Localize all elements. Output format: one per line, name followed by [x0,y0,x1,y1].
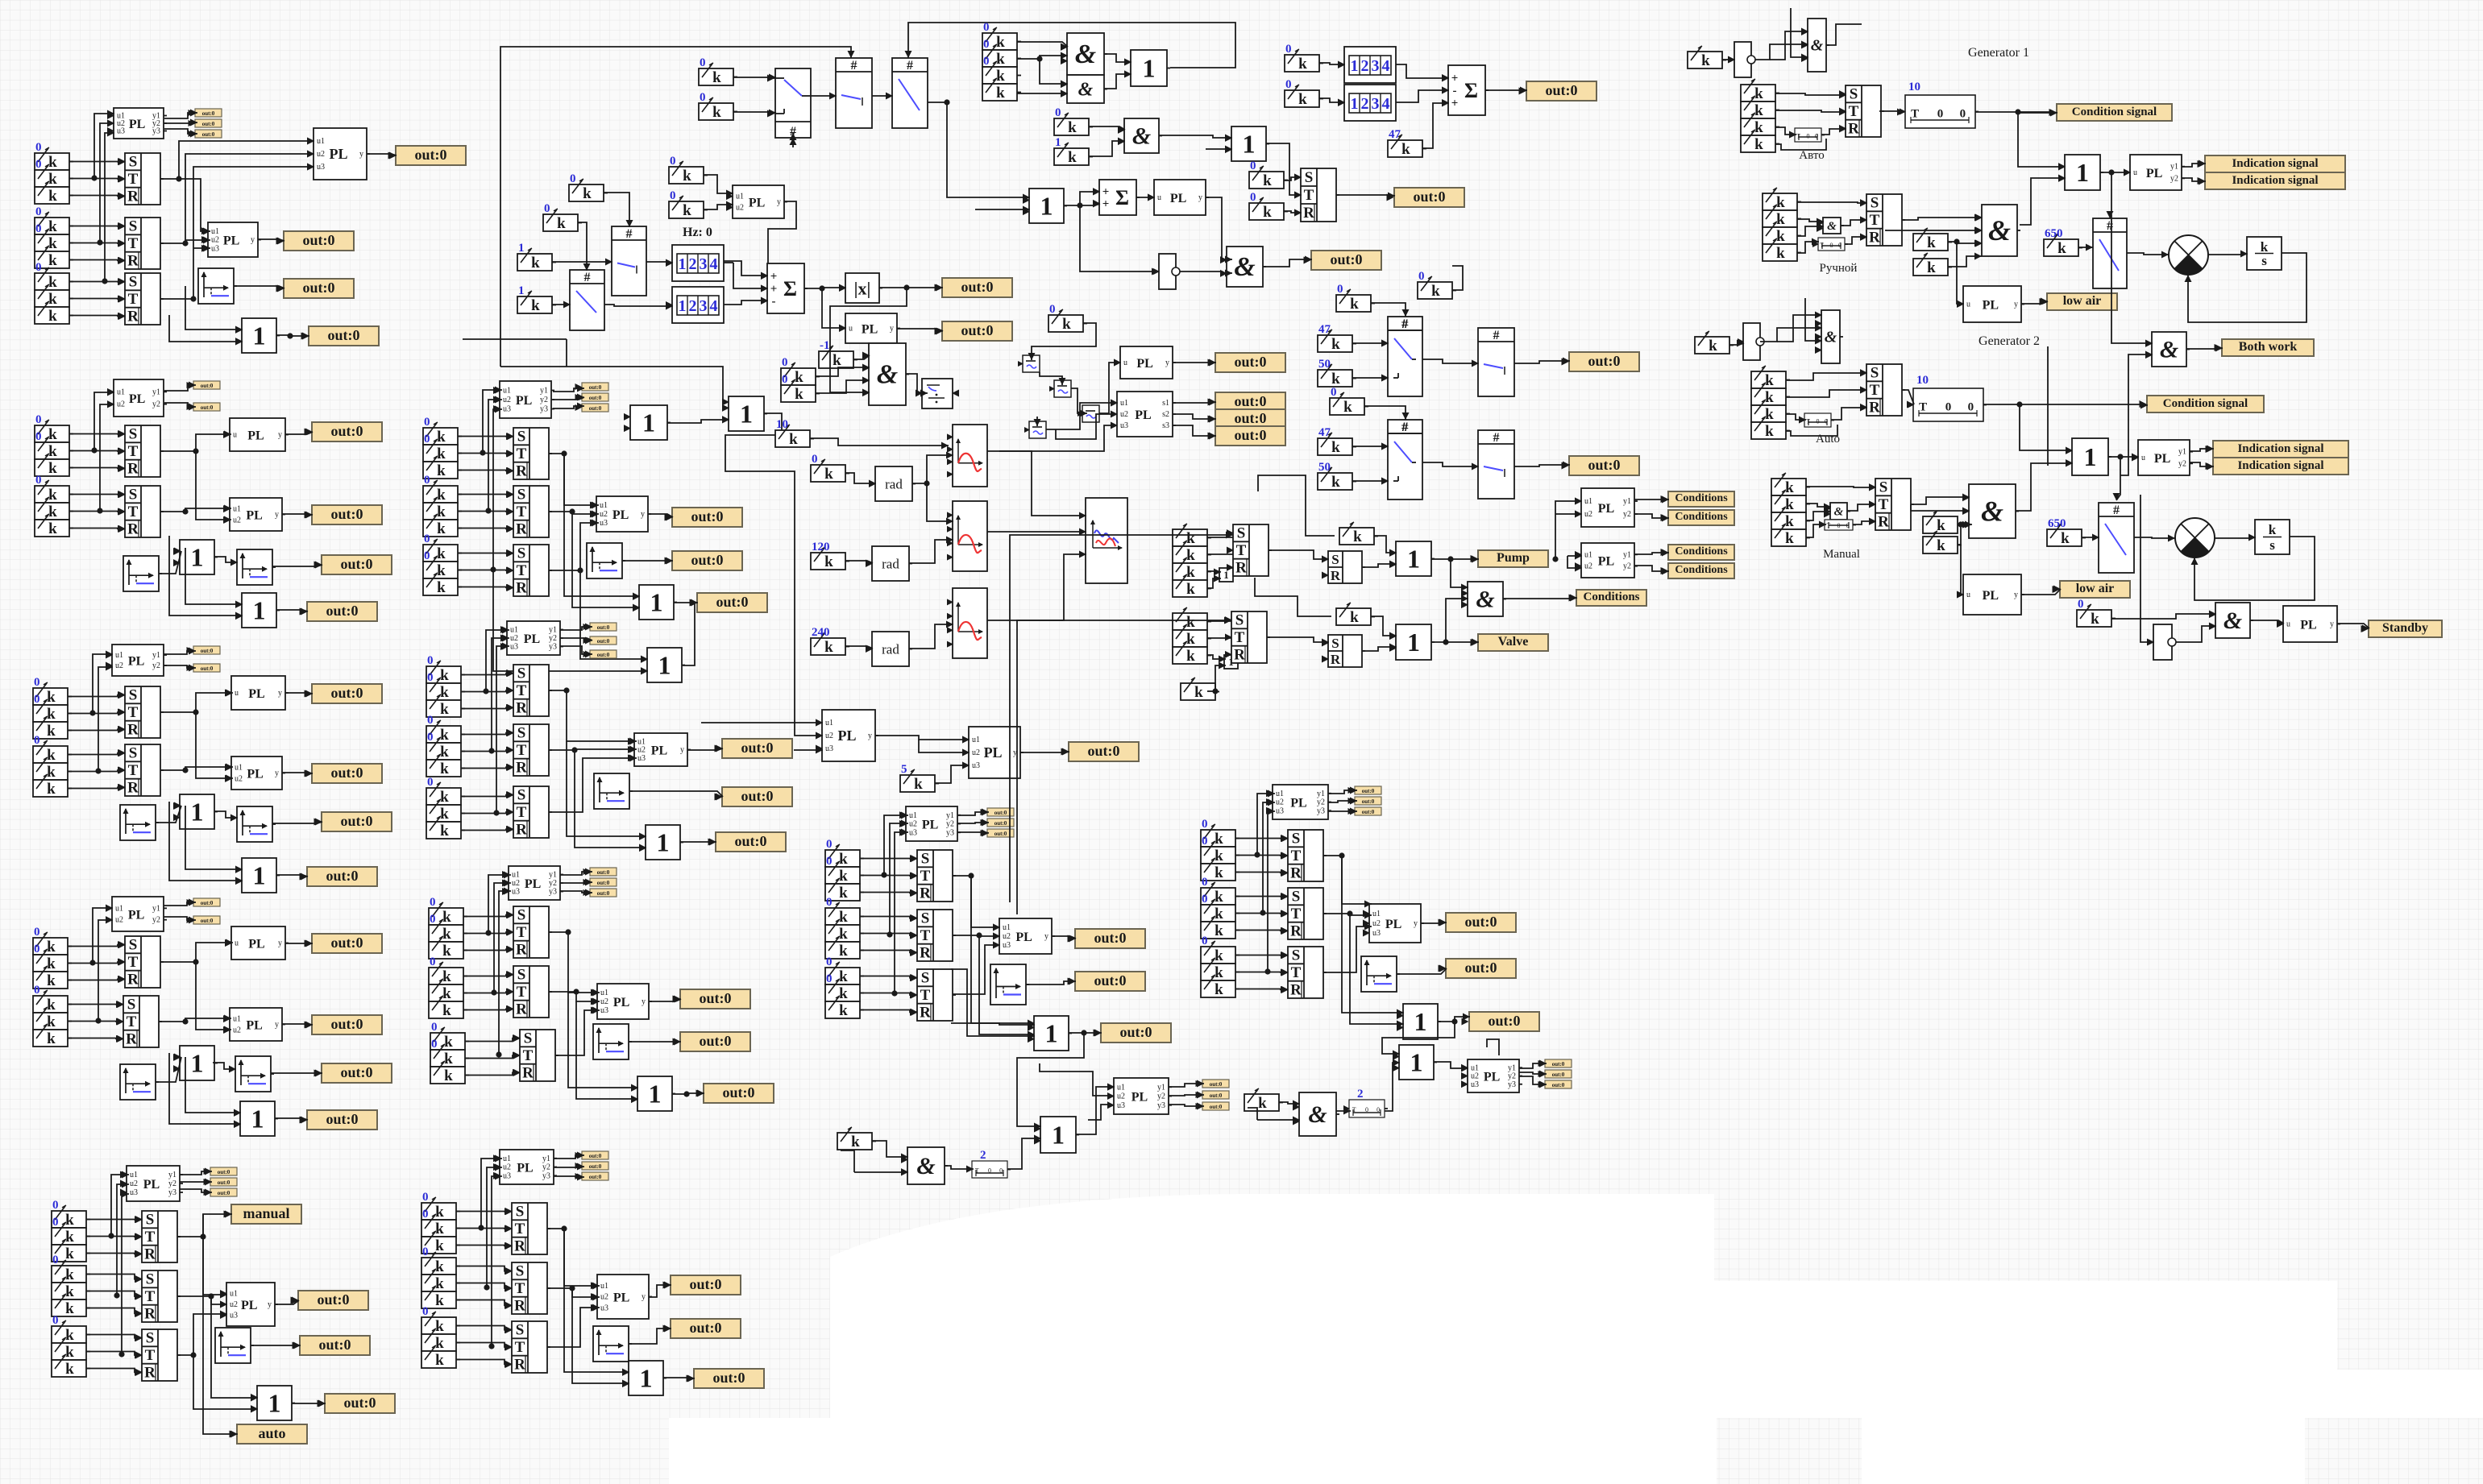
svg-text:k: k [65,1300,74,1317]
wire [1431,641,1479,643]
svg-text:T: T [1291,964,1302,981]
wire [1821,129,1846,135]
wire [1806,487,1876,487]
svg-text:S: S [1871,365,1879,382]
svg-text:S: S [146,1330,155,1347]
wire [275,1300,299,1304]
svg-text:k: k [1258,1095,1267,1112]
AND gate & [1468,582,1503,616]
wire [1284,177,1302,180]
gain k [429,1001,463,1018]
wire [68,712,125,714]
svg-text:out:0: out:0 [303,280,335,296]
svg-text:y3: y3 [549,643,557,652]
svg-text:u2: u2 [909,820,917,829]
small output out:0 [210,1167,237,1175]
svg-text:0: 0 [34,693,40,706]
svg-text:PL: PL [128,909,144,922]
PL logic block [500,381,551,418]
svg-text:Both work: Both work [2239,340,2298,354]
svg-text:T: T [515,1280,525,1297]
svg-text:out:0: out:0 [341,556,373,572]
svg-text:PL: PL [129,118,145,131]
AND gate & [1969,484,2016,538]
svg-text:out:0: out:0 [589,405,602,412]
gain k [421,1317,456,1334]
output label out:0 [680,989,750,1009]
wire [1451,559,1468,587]
svg-text:0: 0 [2078,598,2084,611]
PL logic block [112,645,164,676]
svg-text:k: k [1785,530,1794,547]
wire [285,943,313,944]
gain k [429,925,463,942]
svg-text:0: 0 [544,202,550,215]
svg-text:u: u [235,689,239,698]
svg-text:k: k [1186,547,1195,564]
sine generator [953,501,987,571]
gain k [33,780,68,797]
svg-text:k: k [440,727,449,744]
svg-text:k: k [48,504,57,520]
svg-text:S: S [129,487,138,504]
svg-text:50: 50 [1318,358,1331,371]
wire [1797,202,1867,203]
svg-text:R: R [920,1004,931,1021]
wire [945,1166,974,1169]
gain k [35,290,69,307]
svg-text:out:0: out:0 [716,594,749,610]
wire [69,161,125,163]
pulse timer T 0 0 [1913,388,1983,421]
svg-text:0: 0 [34,676,40,689]
svg-text:u2: u2 [230,1300,238,1309]
wire [211,1296,258,1398]
OR gate 1 [629,1361,663,1395]
gain k [1173,630,1207,647]
small output out:0 [590,878,617,886]
svg-text:Generator 2: Generator 2 [1979,334,2040,348]
svg-text:k: k [47,997,56,1014]
svg-text:Σ: Σ [783,277,797,301]
wire [160,141,314,179]
RS trigger S/T/R [512,1262,547,1314]
svg-text:0: 0 [1202,935,1208,947]
wire [629,1041,681,1043]
wire [2182,164,2206,167]
gain k [811,465,845,482]
wire [1634,553,1669,554]
wire [69,450,125,453]
svg-text:k: k [683,168,691,184]
svg-text:0: 0 [1250,160,1256,172]
svg-text:k: k [1765,389,1774,406]
svg-text:0: 0 [1937,108,1944,121]
wire [1010,535,1233,902]
svg-text:k: k [47,955,56,972]
output label out:0 [680,1032,750,1051]
svg-text:k: k [435,1335,444,1352]
output label out:0 [1215,392,1285,412]
svg-text:out:0: out:0 [202,110,215,117]
OR gate 1 [1399,1045,1434,1080]
RS trigger S/T/R [125,273,160,325]
svg-text:out:0: out:0 [589,1153,602,1159]
gain k [35,187,69,204]
svg-text:k: k [839,985,848,1002]
output label out:0 [1215,353,1285,372]
wire [86,1335,142,1338]
wire [1069,1032,1102,1034]
PL logic block [231,757,282,790]
OR gate 1 [1034,1016,1069,1051]
AND gate & [1299,1092,1336,1136]
svg-text:out:0: out:0 [741,740,774,756]
svg-text:u2: u2 [1276,798,1284,807]
gain k [825,1001,860,1018]
gain k [33,938,68,955]
svg-text:S: S [146,1212,155,1229]
PL logic block [1468,1059,1519,1092]
wire [1350,914,1404,1024]
svg-text:out:0: out:0 [597,890,610,897]
wire [2190,462,2214,466]
wire [487,1167,502,1287]
wire [1071,388,1087,413]
svg-text:k: k [1431,283,1440,300]
wire [169,315,243,342]
RS trigger S/T/R [1846,85,1881,137]
output label out:0 [1075,972,1145,991]
wire [872,1141,908,1157]
wire [1385,1063,1400,1111]
wire [860,951,917,953]
wire [674,602,698,603]
wire [2182,178,2206,181]
gain k [1201,888,1235,905]
svg-text:&: & [916,1153,935,1179]
svg-text:k: k [435,1292,444,1309]
svg-text:u1: u1 [1584,550,1592,559]
wire [69,528,125,530]
svg-text:1: 1 [253,321,266,350]
svg-text:out:0: out:0 [331,935,363,951]
svg-text:u2: u2 [825,732,833,740]
output label out:0 [1469,1012,1539,1031]
RS trigger S/T/R [125,936,160,988]
OR gate 1 [180,540,214,574]
OR gate 1 [2065,155,2100,190]
svg-text:k: k [1765,423,1774,440]
svg-text:PL: PL [223,234,239,248]
wire [185,286,243,330]
svg-text:k: k [1765,406,1774,423]
svg-text:s1: s1 [1162,399,1169,408]
wire [549,758,637,812]
svg-text:S: S [1237,525,1246,542]
output label out:0 [1215,426,1285,446]
svg-text:1: 1 [1040,192,1053,221]
wire [2134,537,2175,538]
svg-text:R: R [127,779,139,796]
switch selector block [775,68,811,138]
svg-text:y: y [251,236,255,245]
svg-text:0: 0 [1968,401,1974,414]
svg-text:k: k [440,823,449,839]
wire [1207,571,1221,572]
svg-text:k: k [48,291,57,308]
wire [1235,838,1288,839]
svg-text:k: k [712,104,721,121]
svg-text:1: 1 [657,828,670,857]
gain k [825,908,860,925]
svg-text:out:0: out:0 [1210,1081,1223,1088]
svg-text:k: k [531,255,540,272]
wire [875,736,970,740]
svg-text:out:0: out:0 [326,603,359,619]
OR gate 1 [637,1076,672,1111]
wire [456,1211,512,1212]
gain k [423,562,458,578]
svg-text:T: T [920,868,931,885]
wire [488,400,502,511]
svg-text:T: T [128,504,139,520]
step source block [1361,956,1397,992]
svg-text:k: k [435,1258,444,1275]
wire [1775,110,1846,112]
gain k [35,251,69,268]
svg-text:R: R [1235,559,1247,576]
wire [203,1214,227,1295]
RS trigger S/T/R [1233,524,1268,576]
svg-text:PL: PL [246,509,262,523]
svg-text:0: 0 [34,926,40,939]
gain k [1173,563,1207,580]
svg-text:out:0: out:0 [735,833,767,849]
wire [816,380,870,393]
svg-text:S: S [517,665,526,682]
gain k [699,103,733,120]
gain k [1330,398,1364,415]
svg-text:+: + [770,283,778,296]
gain k [1201,964,1235,980]
wire [68,1004,123,1005]
svg-text:y: y [275,769,279,778]
svg-text:u2: u2 [233,1026,241,1034]
svg-text:k: k [1754,119,1763,136]
small output out:0 [1355,797,1381,805]
svg-text:0: 0 [424,474,430,487]
svg-text:u1: u1 [117,388,125,396]
svg-text:0: 0 [422,1246,429,1258]
gain k [1173,546,1207,563]
wire [580,570,648,659]
svg-text:#: # [1401,317,1408,331]
gain k [1913,259,1948,276]
svg-text:PL: PL [1135,408,1151,422]
svg-text:2: 2 [1357,1088,1364,1101]
svg-text:k: k [65,1327,74,1344]
wire [258,239,284,241]
OR gate 1 [1231,126,1266,161]
wire [572,1288,629,1383]
wire [486,630,509,691]
svg-text:1: 1 [649,1080,662,1109]
wire [159,1018,231,1022]
wire [549,512,599,514]
wire [1845,237,1867,244]
frequency filter # [2093,218,2127,288]
svg-text:out:0: out:0 [961,279,994,295]
gain k [825,867,860,884]
wire [1886,230,1982,230]
gain k [825,942,860,959]
svg-text:out:0: out:0 [597,624,610,631]
wire [1806,504,1831,507]
wire [804,288,846,288]
output label out:0 [322,1063,392,1083]
svg-text:0: 0 [826,955,833,968]
output label out:0 [307,1110,377,1130]
wire [69,226,125,227]
wire [463,915,513,917]
svg-text:k: k [48,171,57,188]
svg-text:S: S [129,745,138,762]
wire [1268,811,1275,972]
wire [1255,578,1331,616]
step source block [237,549,272,585]
svg-text:T: T [1911,108,1919,121]
svg-text:k: k [48,520,57,537]
wire [1514,361,1570,363]
gain k [426,822,461,839]
svg-text:k: k [442,926,451,943]
svg-text:+: + [1102,197,1110,210]
small output out:0 [193,381,220,389]
wire [456,1300,512,1306]
wire [1948,242,1982,243]
svg-text:PL: PL [613,996,629,1009]
gain k [52,1300,86,1316]
svg-text:0: 0 [35,474,42,487]
gain k [1336,608,1371,625]
wire [704,175,733,193]
wire [68,787,125,788]
svg-text:T: T [1919,401,1927,414]
wire [69,511,125,513]
svg-text:u1: u1 [972,736,980,744]
svg-text:u3: u3 [972,761,980,770]
gain k [2047,529,2082,546]
output label low air [2047,293,2117,310]
output label out:0 [396,146,466,165]
gain k [825,925,860,942]
RS trigger S/T/R [142,1329,177,1381]
svg-text:&: & [2223,607,2242,634]
gain k [1181,683,1215,700]
gain k [1763,210,1797,227]
gain k [569,184,604,201]
svg-text:u1: u1 [235,764,243,773]
wire [1263,259,1312,267]
svg-text:0: 0 [422,1305,429,1318]
wire [492,1176,502,1346]
svg-text:R: R [127,460,139,477]
output label Conditions [1668,510,1734,525]
svg-text:650: 650 [2045,227,2063,240]
gain k [426,760,461,777]
svg-text:R: R [1331,568,1341,583]
RS trigger S/T/R [125,425,160,477]
plain background patch [830,1194,1714,1484]
svg-text:u2: u2 [317,150,325,159]
RS trigger S/T/R [123,996,159,1047]
svg-text:u3: u3 [503,405,511,414]
wire [1104,54,1131,62]
svg-text:47: 47 [1389,128,1401,141]
wire [461,750,513,752]
svg-text:out:0: out:0 [331,506,363,522]
gain k [429,968,463,984]
svg-text:u3: u3 [600,1006,608,1015]
svg-text:Valve: Valve [1498,635,1529,649]
svg-text:0: 0 [983,55,990,68]
wire [1397,968,1447,974]
wire [185,548,243,604]
OR gate 1 [257,1386,292,1420]
wire [649,999,681,1001]
wire [622,560,673,562]
svg-text:u1: u1 [230,1290,238,1299]
gain k [52,1343,86,1360]
svg-text:+: + [770,271,778,284]
wire [458,570,513,572]
wire [1567,555,1582,557]
output label out:0 [1569,456,1639,475]
asynchronous machine [2169,235,2208,275]
output label out:0 [1446,913,1516,932]
gain k [421,1334,456,1351]
svg-text:k: k [1331,336,1340,353]
svg-text:y: y [278,689,282,698]
comparator small [1082,405,1099,422]
svg-text:y: y [642,1293,646,1302]
svg-text:Indication signal: Indication signal [2232,174,2318,187]
svg-text:k: k [839,943,848,960]
svg-text:u1: u1 [512,871,520,880]
wire [1336,195,1395,196]
svg-text:k: k [1263,172,1272,189]
svg-text:0: 0 [983,38,990,51]
svg-text:0: 0 [1049,303,1056,316]
wire [69,467,125,470]
svg-text:S: S [517,787,526,804]
wire [463,1009,513,1009]
svg-text:s: s [2269,537,2275,553]
wire [203,1237,238,1434]
wire [1422,462,1479,466]
svg-text:k: k [1186,530,1195,547]
wire [1797,226,1824,236]
svg-text:+: + [1102,186,1110,199]
svg-text:1: 1 [679,297,687,315]
gain k [35,486,69,503]
wire [554,1155,584,1159]
step source block [587,543,622,578]
wire [196,962,231,1030]
svg-text:10: 10 [1916,374,1929,387]
small output out:0 [1202,1080,1229,1088]
